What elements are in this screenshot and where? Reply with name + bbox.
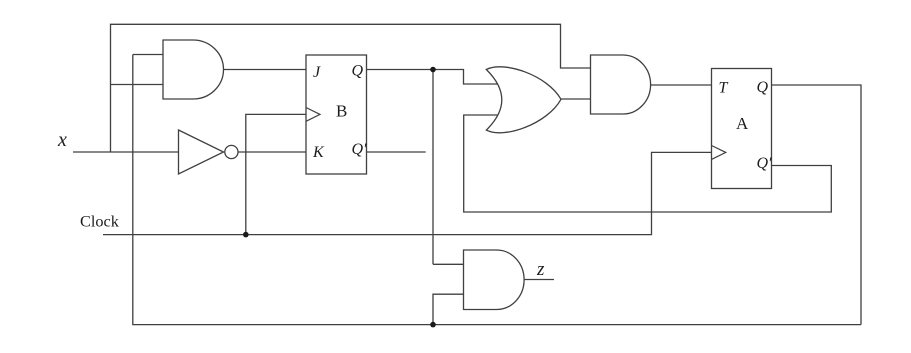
OR gate [486,67,561,133]
wire B Q' stub [367,151,426,153]
junction dot clock/B [243,232,249,238]
wire B Q down to z gate [432,70,434,265]
wire B Q output to OR input 1 [367,70,506,85]
junction dot bottom wire [430,322,436,328]
flip-flop A clock triangle [712,146,726,160]
svg-text:B: B [336,101,347,120]
AND gate 1 (top left) [163,40,223,99]
NOT gate (inverter) triangle [179,130,224,174]
wire inverter output to K [238,151,306,153]
junction dot B Q line [430,67,436,73]
svg-text:T: T [719,79,729,96]
wire z output [524,279,554,281]
wire z gate lower input [433,294,464,324]
svg-text:J: J [313,64,321,81]
AND gate 3 (z output) [464,250,525,310]
wire Clock line [103,152,712,234]
wire AND2 output to T [645,84,712,86]
svg-text:Clock: Clock [80,212,120,231]
wire left feedback vertical [133,55,861,325]
flip-flop B clock triangle [306,108,320,122]
svg-text:Q′: Q′ [757,155,773,172]
wire x input [73,151,179,153]
wire AND1 lower input [111,84,165,86]
wire OR output to AND2 [561,98,591,100]
wire top feedback from x up and across [111,24,591,152]
wire AND1 upper input [133,54,164,56]
wire z gate upper input [433,263,464,265]
wire B clock input [246,114,306,234]
svg-text:Q′: Q′ [352,141,368,158]
flip-flop B box [306,55,367,174]
wire A Q output feedback right and down [772,85,862,325]
svg-text:x: x [57,129,67,151]
wire A Q' feedback to OR input 2 [464,115,832,212]
svg-text:A: A [736,114,749,133]
svg-text:K: K [312,144,325,161]
svg-text:Q: Q [757,79,769,96]
NOT gate bubble [225,145,238,158]
svg-text:z: z [536,259,545,280]
AND gate 2 (top right) [591,55,651,114]
wire AND1 output to J [218,69,306,71]
svg-text:Q: Q [352,63,364,80]
flip-flop A box [712,69,772,189]
